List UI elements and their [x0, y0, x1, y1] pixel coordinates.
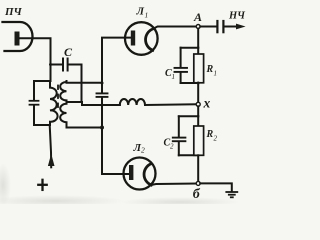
svg-text:1: 1	[172, 73, 176, 81]
wire to diode V3 plate	[102, 128, 129, 175]
wire C to center tap	[81, 65, 84, 103]
junction R1 C1 bottom	[197, 82, 200, 85]
wire primary tank bottom	[34, 124, 50, 126]
wire riser to V2 plate	[102, 38, 131, 83]
wire node A down	[197, 29, 199, 48]
junction secondary bottom	[100, 126, 104, 130]
diode tube V3	[124, 158, 156, 190]
capacitor C1	[175, 48, 199, 83]
inductor L1 primary coil	[50, 81, 58, 125]
wire V2 cathode to node A	[153, 27, 197, 30]
tube V1 limiter partial envelope	[3, 22, 33, 51]
svg-text:ПЧ: ПЧ	[4, 6, 23, 18]
svg-text:R: R	[206, 64, 214, 75]
inductor L2 secondary coil center tapped	[60, 81, 66, 128]
junction choke tap	[101, 104, 104, 107]
node b	[196, 181, 200, 185]
label L2 tube	[133, 142, 146, 155]
label R1	[206, 64, 218, 78]
svg-text:1: 1	[214, 70, 218, 78]
node x	[196, 102, 200, 106]
wire center tap to choke	[67, 102, 120, 105]
svg-text:2: 2	[141, 146, 145, 155]
capacitor of primary tank	[30, 81, 39, 125]
wire primary tank top	[34, 80, 51, 82]
capacitor secondary tuning	[97, 83, 108, 128]
wire to node x	[197, 83, 199, 102]
label L1 tube	[136, 6, 149, 20]
svg-text:1: 1	[145, 11, 149, 20]
tube V1 anode plate	[15, 32, 20, 46]
wire secondary top to V2 plate riser	[67, 82, 103, 84]
transformer core dashes	[57, 86, 59, 108]
wire V1 anode to primary tank top	[20, 38, 51, 81]
node A	[196, 25, 200, 29]
capacitor C2	[173, 116, 198, 155]
label C1	[165, 68, 175, 81]
wire node x down	[197, 106, 199, 116]
label plus	[38, 180, 46, 190]
svg-text:А: А	[193, 10, 202, 24]
svg-text:НЧ: НЧ	[228, 11, 246, 22]
svg-text:2: 2	[214, 135, 218, 143]
svg-text:Л: Л	[136, 6, 145, 18]
diode tube V2	[125, 22, 158, 55]
junction secondary top	[101, 82, 104, 85]
wire secondary bottom	[67, 127, 103, 129]
wire choke to node x	[145, 103, 196, 106]
resistor R2	[194, 116, 204, 155]
ground	[226, 192, 237, 197]
wire to node b	[197, 155, 199, 181]
resistor R1	[194, 48, 204, 83]
capacitor C coupling to center tap	[51, 59, 82, 71]
wire V3 cathode to node b	[151, 184, 196, 186]
capacitor output coupling	[200, 21, 245, 32]
wire node b to ground	[200, 183, 232, 191]
label R2	[206, 129, 218, 143]
svg-text:R: R	[206, 129, 214, 140]
wire to plus supply with arrow	[48, 125, 55, 167]
junction C tap	[49, 63, 52, 66]
svg-text:C: C	[64, 45, 73, 59]
svg-text:x: x	[203, 96, 211, 111]
label C2	[164, 138, 175, 151]
svg-text:б: б	[193, 187, 201, 202]
inductor L3 RF choke	[120, 99, 145, 105]
svg-text:2: 2	[170, 143, 174, 151]
